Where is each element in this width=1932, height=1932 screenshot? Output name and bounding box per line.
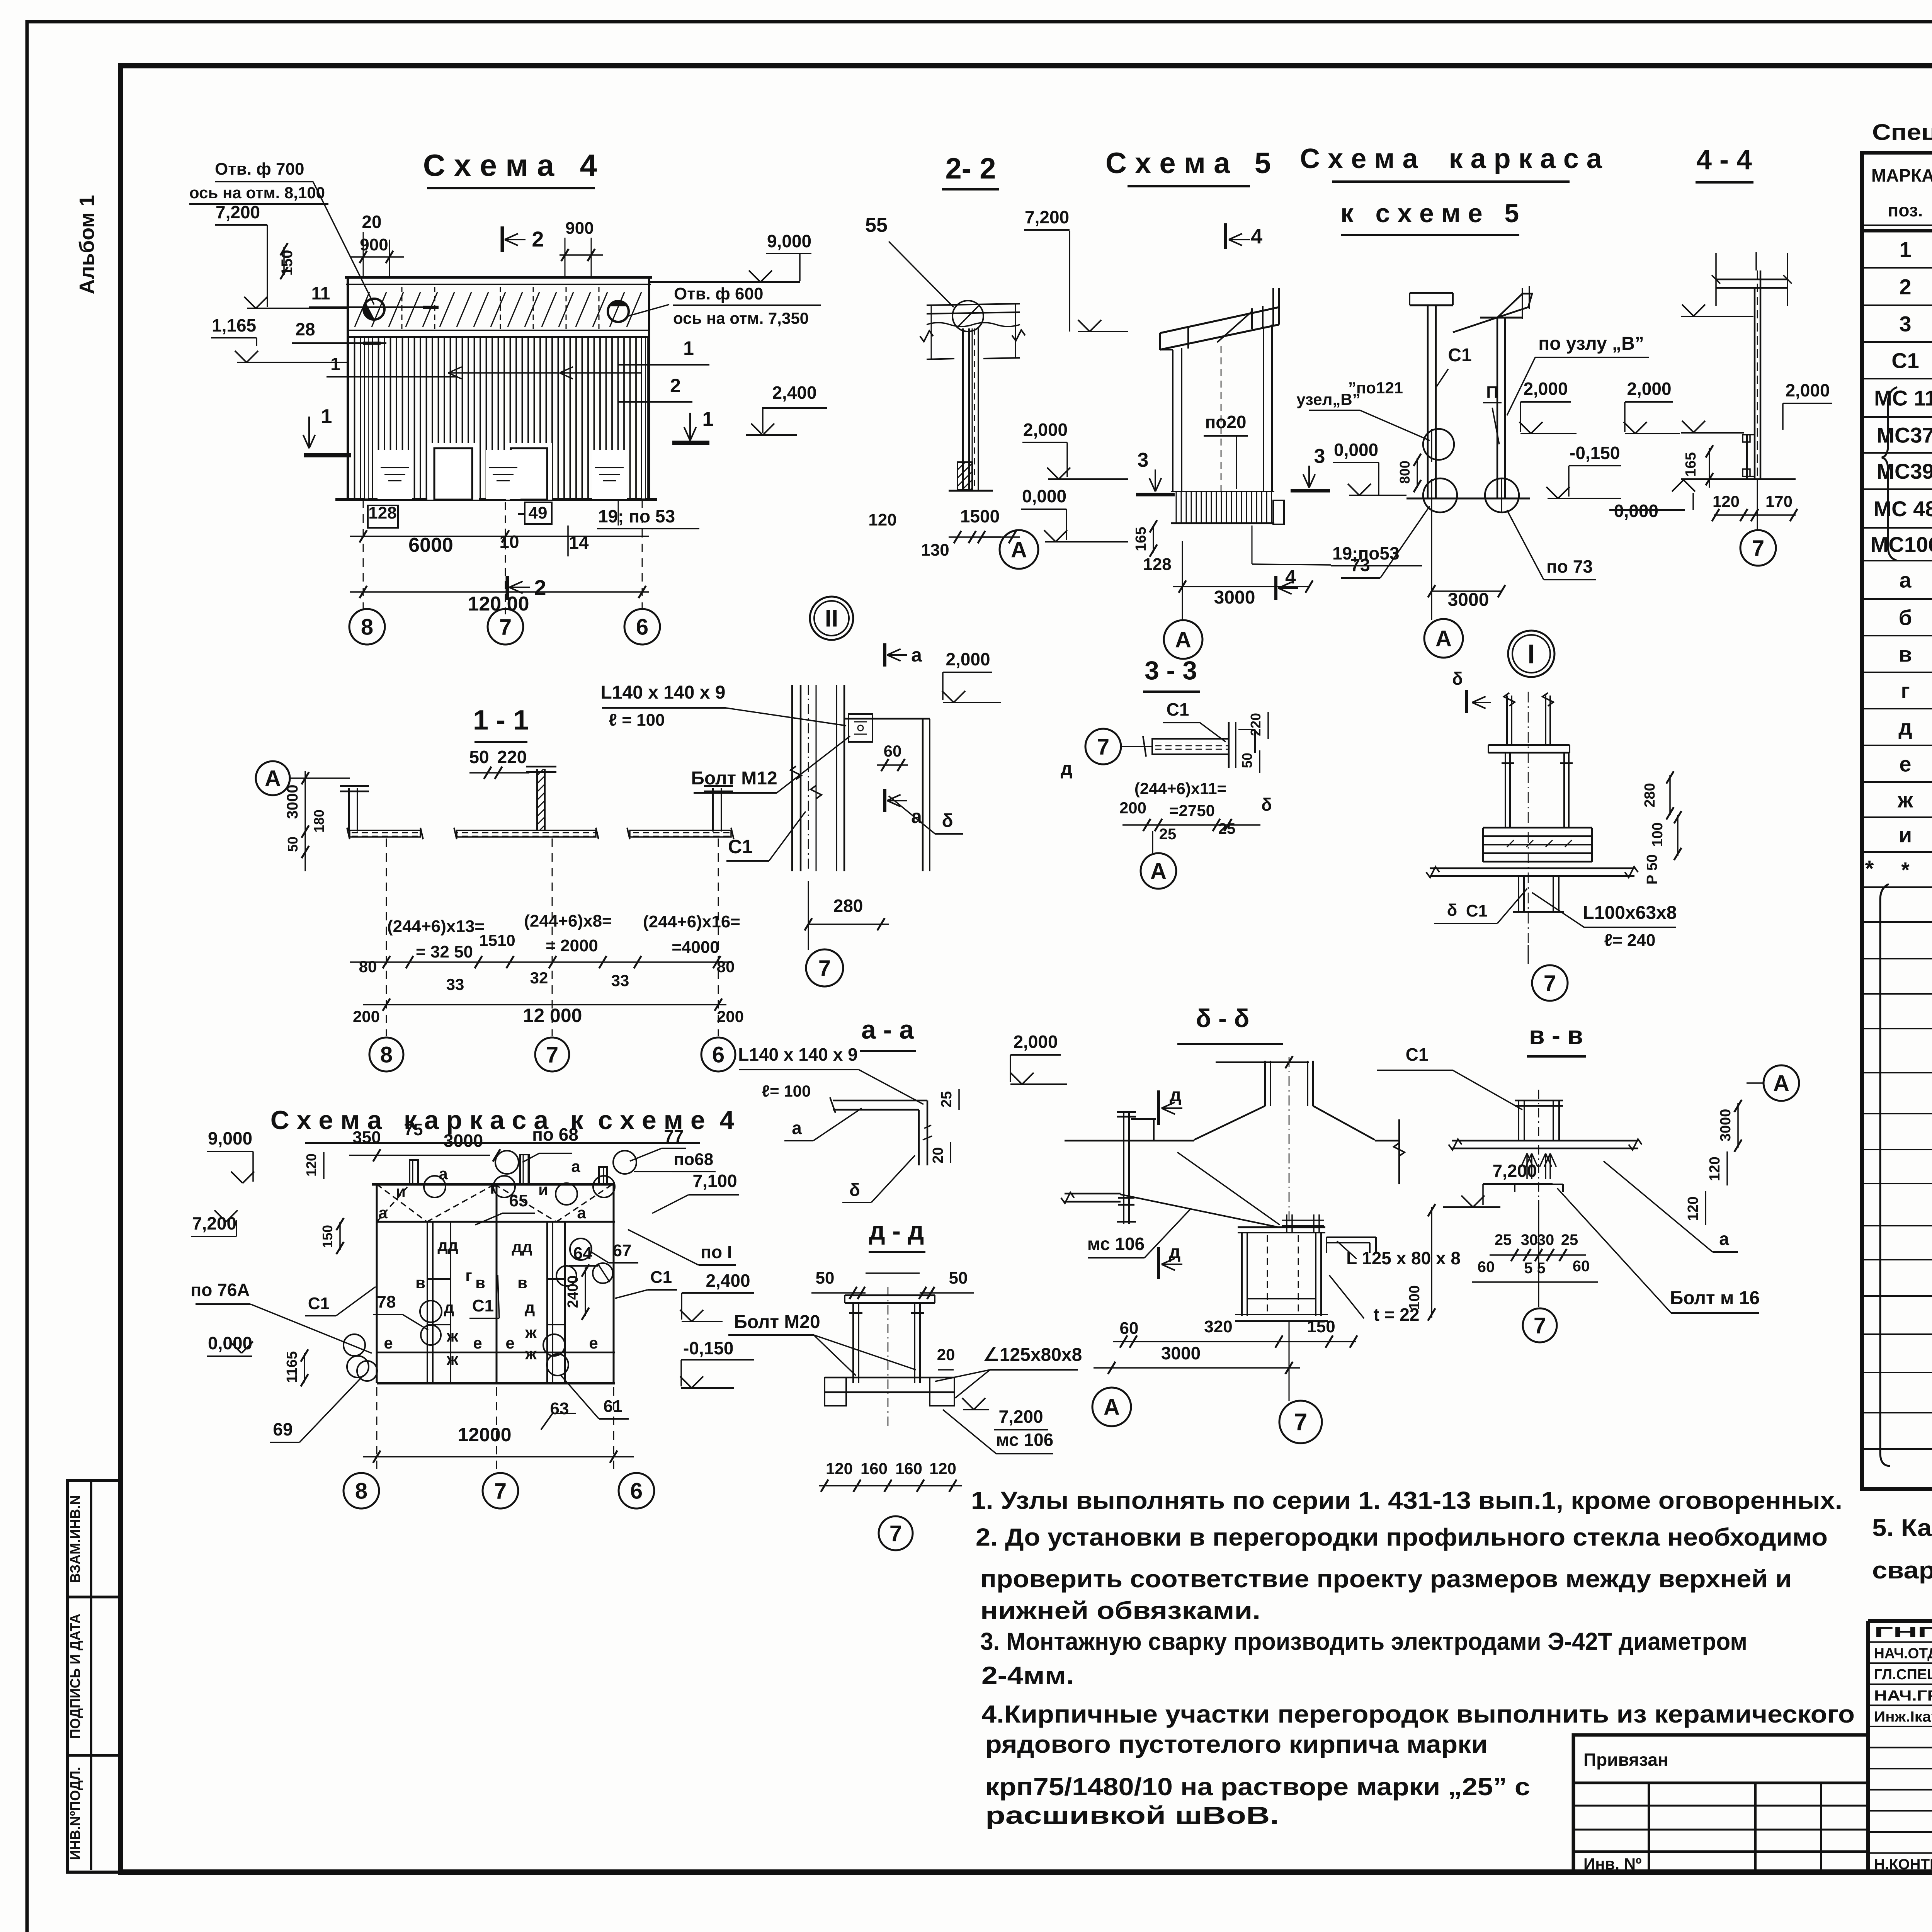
svg-text:МС37: МС37 bbox=[1876, 423, 1932, 447]
schema 5 bubble A bbox=[1164, 576, 1202, 659]
svg-text:200: 200 bbox=[717, 1007, 744, 1026]
svg-text:рядового пустотелого кирпича: рядового пустотелого кирпича марки bbox=[985, 1730, 1488, 1758]
svg-text:3000: 3000 bbox=[444, 1131, 483, 1151]
svg-text:в: в bbox=[1899, 642, 1912, 667]
portal frame 5 label uzel V po121 bbox=[1296, 379, 1430, 440]
svg-text:к с х е м е 5: к с х е м е 5 bbox=[1340, 199, 1519, 228]
left margin stamp boxes bbox=[68, 1481, 121, 1872]
svg-text:ℓ = 100: ℓ = 100 bbox=[609, 711, 665, 730]
detail b-b anchor bolt left bbox=[1117, 1112, 1156, 1224]
svg-text:2. До установки в перегородк: 2. До установки в перегородки профильног… bbox=[976, 1523, 1828, 1551]
schema 5 section mark 3 right bbox=[1291, 445, 1330, 491]
svg-text:а: а bbox=[439, 1165, 448, 1183]
svg-text:II: II bbox=[825, 605, 838, 632]
portal frame 4 dim 12000 bbox=[363, 1424, 634, 1463]
portal frame 4 label 67 bbox=[591, 1241, 638, 1283]
svg-text:1: 1 bbox=[683, 337, 694, 359]
svg-text:150: 150 bbox=[1307, 1317, 1335, 1336]
svg-text:280: 280 bbox=[1642, 783, 1658, 807]
svg-text:(244+6)x8=: (244+6)x8= bbox=[524, 912, 612, 930]
section 1-1 bubble 6 bbox=[701, 838, 735, 1071]
c1 detail label bolt M12 bbox=[691, 736, 850, 793]
svg-text:е: е bbox=[505, 1334, 514, 1352]
v-v label C1 lower bbox=[1377, 1044, 1522, 1110]
svg-text:нижней обвязками.: нижней обвязками. bbox=[980, 1597, 1260, 1624]
svg-text:7: 7 bbox=[1544, 971, 1556, 996]
portal frame 4 label po 76A bbox=[190, 1280, 372, 1353]
section 2-2 label 55 bbox=[865, 214, 954, 307]
svg-text:г: г bbox=[490, 1179, 497, 1197]
svg-text:3000: 3000 bbox=[284, 785, 301, 819]
schema 5 elevation 0000 bbox=[1021, 486, 1128, 542]
section 4-4 level 7200 line bbox=[1681, 304, 1753, 316]
svg-text:3: 3 bbox=[1899, 312, 1911, 336]
v-v upper bubble 7 bbox=[1528, 945, 1568, 1001]
svg-text:д: д bbox=[1170, 1085, 1181, 1105]
portal frame 5 elevation 0000 bbox=[1333, 440, 1406, 495]
svg-text:∠125х80х8: ∠125х80х8 bbox=[983, 1345, 1082, 1365]
svg-text:-0,150: -0,150 bbox=[683, 1338, 733, 1358]
svg-text:С1: С1 bbox=[308, 1294, 330, 1313]
svg-text:50: 50 bbox=[285, 837, 301, 852]
svg-text:1: 1 bbox=[1899, 237, 1911, 262]
portal frame 5 label po 73 bbox=[1507, 510, 1596, 580]
svg-text:расшивкой шВоВ.: расшивкой шВоВ. bbox=[985, 1801, 1279, 1829]
svg-text:7: 7 bbox=[1294, 1409, 1307, 1436]
portal frame 5 elevation -0150 bbox=[1546, 443, 1621, 498]
svg-text:165: 165 bbox=[1683, 452, 1699, 476]
svg-text:С1: С1 bbox=[650, 1268, 672, 1287]
portal frame 5 bubble A bbox=[1424, 506, 1463, 658]
svg-text:25: 25 bbox=[1218, 820, 1236, 837]
schema 4 elevation 7200 left bbox=[215, 202, 348, 308]
schema 4 label 10 bbox=[499, 502, 519, 614]
section 1-1 bubble 8 bbox=[369, 838, 403, 1071]
schema 5 section mark 4 top bbox=[1226, 223, 1262, 249]
svg-text:д: д bbox=[1898, 715, 1912, 740]
portal frame 4 dim 2400 vertical bbox=[565, 1264, 589, 1320]
svg-text:1500: 1500 bbox=[960, 506, 1000, 526]
portal frame 4 label C1 left bbox=[305, 1287, 376, 1316]
svg-text:(244+6)x11=: (244+6)x11= bbox=[1134, 779, 1226, 798]
c1 detail labels L140 bbox=[601, 682, 846, 730]
detail d-d bottom channel bbox=[825, 1378, 954, 1406]
portal frame 4 elevation 9000 bbox=[207, 1128, 372, 1183]
svg-text:МС106: МС106 bbox=[1871, 532, 1932, 557]
c1 detail elevation 2000 bbox=[942, 649, 1001, 702]
svg-text:д: д bbox=[525, 1298, 535, 1316]
svg-text:ℓ= 240: ℓ= 240 bbox=[1604, 931, 1656, 950]
svg-text:220: 220 bbox=[1248, 713, 1264, 736]
detail b-b bubble A bbox=[1092, 1388, 1131, 1426]
svg-text:2,000: 2,000 bbox=[1627, 379, 1671, 399]
svg-text:2,000: 2,000 bbox=[946, 649, 990, 669]
detail b-b title bbox=[1177, 1004, 1283, 1044]
detail b-b label L125 bbox=[1337, 1241, 1461, 1272]
svg-text:по 73: по 73 bbox=[1546, 556, 1593, 577]
svg-text:0,000: 0,000 bbox=[1334, 440, 1378, 460]
detail b-b level line 7200 bbox=[1065, 1119, 1405, 1184]
svg-text:L100х63х8: L100х63х8 bbox=[1583, 903, 1677, 923]
svg-text:1: 1 bbox=[321, 405, 332, 428]
svg-text:мс 106: мс 106 bbox=[1087, 1234, 1145, 1254]
svg-text:20: 20 bbox=[930, 1147, 946, 1163]
svg-text:δ: δ bbox=[1261, 794, 1272, 815]
schema 4 grid bubble 8 bbox=[349, 500, 385, 645]
svg-text:I: I bbox=[1527, 639, 1535, 669]
svg-text:в - в: в - в bbox=[1529, 1021, 1583, 1049]
node I circle bbox=[1508, 631, 1554, 677]
v-v lower label bolt m16 bbox=[1557, 1188, 1760, 1313]
svg-text:60: 60 bbox=[1120, 1319, 1139, 1338]
svg-text:д: д bbox=[1169, 1242, 1180, 1262]
svg-text:по68: по68 bbox=[674, 1150, 713, 1169]
detail a-a label a bbox=[784, 1108, 862, 1141]
svg-text:150: 150 bbox=[320, 1225, 335, 1248]
svg-text:7,200: 7,200 bbox=[998, 1406, 1043, 1427]
svg-text:120: 120 bbox=[826, 1459, 853, 1478]
svg-text:С х е м а 5: С х е м а 5 bbox=[1105, 147, 1271, 180]
svg-text:по20: по20 bbox=[1205, 412, 1246, 432]
svg-text:33: 33 bbox=[446, 975, 464, 993]
svg-text:д - д: д - д bbox=[869, 1216, 924, 1245]
svg-text:а: а bbox=[378, 1204, 388, 1222]
svg-text:170: 170 bbox=[1765, 492, 1793, 510]
svg-text:=2750: =2750 bbox=[1169, 801, 1215, 820]
schema 5 elevation 7200 bbox=[1023, 207, 1128, 332]
svg-text:2: 2 bbox=[1899, 275, 1911, 299]
svg-text:7,200: 7,200 bbox=[216, 202, 260, 222]
specification table title bbox=[1872, 120, 1932, 145]
portal frame 4 top chord bbox=[372, 1183, 615, 1186]
svg-text:П: П bbox=[1486, 383, 1498, 402]
svg-text:ж: ж bbox=[525, 1323, 537, 1342]
portal frame 4 columns bbox=[377, 1184, 614, 1383]
section 1-1 dim line 12000 bbox=[353, 998, 744, 1026]
svg-text:69: 69 bbox=[273, 1419, 293, 1439]
svg-text:60: 60 bbox=[884, 742, 902, 760]
schema 4 section mark 2 bottom bbox=[507, 575, 546, 600]
svg-text:3. Монтажную сварку производ: 3. Монтажную сварку производить электрод… bbox=[980, 1628, 1747, 1655]
svg-text:1165: 1165 bbox=[284, 1351, 300, 1383]
schema 4 dim line 12000 bbox=[350, 586, 649, 615]
schema 5 bottom labels bbox=[1143, 526, 1422, 608]
svg-text:3 - 3: 3 - 3 bbox=[1145, 656, 1197, 685]
svg-text:ж: ж bbox=[446, 1327, 459, 1345]
svg-text:32: 32 bbox=[530, 969, 548, 987]
portal frame 4 member letters bbox=[378, 1157, 598, 1368]
schema 4 elevation 2400 right bbox=[746, 383, 827, 435]
svg-text:1: 1 bbox=[330, 354, 340, 374]
section 4-4 elevation 0000 bbox=[1609, 480, 1695, 521]
svg-text:Привязан: Привязан bbox=[1583, 1750, 1668, 1770]
svg-text:280: 280 bbox=[833, 896, 863, 916]
section 4-4 bracket bbox=[1743, 434, 1755, 479]
svg-text:350: 350 bbox=[352, 1128, 381, 1147]
svg-text:120 00: 120 00 bbox=[468, 593, 529, 615]
detail b-b dims bottom bbox=[1094, 1317, 1357, 1374]
svg-text:2,000: 2,000 bbox=[1785, 380, 1830, 400]
section 1-1 rail segment 2 bbox=[454, 828, 599, 839]
c1 detail label b bbox=[889, 796, 963, 834]
svg-text:75: 75 bbox=[404, 1120, 423, 1139]
svg-text:Р 50: Р 50 bbox=[1644, 854, 1660, 884]
svg-text:6: 6 bbox=[712, 1042, 724, 1067]
section 1-1 rail segment 1 bbox=[347, 828, 423, 839]
svg-text:2: 2 bbox=[532, 227, 544, 251]
svg-text:11: 11 bbox=[311, 283, 330, 303]
schema 4 opening d600 bbox=[608, 301, 629, 322]
svg-text:160: 160 bbox=[861, 1459, 888, 1478]
detail d-d label bolt M20 bbox=[728, 1312, 916, 1376]
svg-text:80: 80 bbox=[717, 957, 735, 976]
detail d-d bubble 7 bbox=[879, 1516, 913, 1550]
svg-text:7,200: 7,200 bbox=[192, 1213, 236, 1233]
svg-text:7,100: 7,100 bbox=[692, 1171, 737, 1191]
svg-text:С1: С1 bbox=[1406, 1044, 1429, 1065]
c1 detail dim 280 bbox=[804, 896, 889, 930]
v-v upper label L100x63x8 bbox=[1532, 893, 1677, 950]
detail a-a title bbox=[860, 1015, 916, 1051]
svg-text:ж: ж bbox=[446, 1350, 459, 1368]
svg-text:28: 28 bbox=[295, 319, 315, 339]
schema 4 base water marks bbox=[378, 450, 627, 499]
svg-text:128: 128 bbox=[1143, 555, 1171, 574]
section 4-4 dim 165 bbox=[1683, 445, 1713, 488]
section 1-1 middle stud bbox=[526, 767, 556, 830]
svg-text:7: 7 bbox=[1534, 1313, 1546, 1338]
portal frame 4 stub posts bbox=[410, 1155, 607, 1184]
svg-text:49: 49 bbox=[529, 503, 548, 522]
svg-text:δ: δ bbox=[849, 1180, 860, 1200]
portal frame 4 elevation 2400 bbox=[680, 1270, 754, 1321]
schema 4 top band diagonals bbox=[355, 287, 641, 329]
svg-text:120: 120 bbox=[1707, 1156, 1723, 1181]
svg-text:1. Узлы выполнять по серии: 1. Узлы выполнять по серии 1. 431-13 вып… bbox=[971, 1486, 1842, 1514]
svg-text:2,000: 2,000 bbox=[1023, 420, 1068, 440]
svg-text:ось на отм. 7,350: ось на отм. 7,350 bbox=[673, 309, 809, 327]
svg-text:а: а bbox=[1899, 568, 1912, 592]
svg-text:7: 7 bbox=[1752, 536, 1764, 561]
svg-text:7: 7 bbox=[818, 956, 831, 981]
portal frame 5 label C1 bbox=[1437, 345, 1472, 386]
svg-text:МС 11: МС 11 bbox=[1874, 386, 1932, 410]
svg-text:по I: по I bbox=[701, 1242, 732, 1262]
schema 4 bottom dim 128 bbox=[368, 503, 398, 528]
detail b-b column bbox=[1194, 1056, 1375, 1229]
detail d-d title bbox=[869, 1216, 925, 1252]
svg-text:200: 200 bbox=[1119, 799, 1146, 817]
section 2-2 bubble A bbox=[981, 530, 1038, 569]
svg-text:9,000: 9,000 bbox=[767, 231, 811, 251]
detail b-b rail left bbox=[1061, 1192, 1121, 1203]
svg-text:2,400: 2,400 bbox=[772, 383, 816, 403]
svg-text:мс 106: мс 106 bbox=[996, 1430, 1054, 1450]
portal frame 5 label po uzlu V bbox=[1507, 333, 1649, 415]
svg-text:73: 73 bbox=[1350, 555, 1370, 575]
c1 detail channel bbox=[837, 685, 930, 871]
portal frame 4 studs bbox=[427, 1222, 565, 1383]
svg-text:5. Катет шва сварных соедин: 5. Катет шва сварных соединений равен на… bbox=[1872, 1515, 1932, 1541]
svg-text:МС39: МС39 bbox=[1876, 459, 1932, 483]
svg-text:(244+6)x16=: (244+6)x16= bbox=[643, 912, 740, 931]
svg-text:С1: С1 bbox=[1448, 345, 1471, 366]
svg-text:дд: дд bbox=[437, 1236, 458, 1254]
svg-text:2-4мм.: 2-4мм. bbox=[981, 1662, 1074, 1689]
svg-text:20: 20 bbox=[937, 1345, 955, 1364]
detail b-b bubble 7 bbox=[1279, 1401, 1322, 1443]
schema 4 opening d600 label bbox=[628, 284, 821, 327]
svg-text:г: г bbox=[465, 1266, 472, 1284]
svg-text:Н.КОНТР.: Н.КОНТР. bbox=[1874, 1857, 1932, 1873]
svg-text:25: 25 bbox=[1495, 1231, 1512, 1248]
c1 detail bubble 7 bbox=[806, 881, 843, 986]
detail b-b elevation 7200 bbox=[1443, 1161, 1553, 1207]
v-v upper plates bbox=[1488, 745, 1570, 753]
svg-text:4.Кирпичные участки перегоро: 4.Кирпичные участки перегородок выполнит… bbox=[981, 1700, 1855, 1728]
svg-text:8: 8 bbox=[355, 1478, 367, 1503]
svg-text:Болт М12: Болт М12 bbox=[691, 768, 777, 789]
general notes text block bbox=[971, 1486, 1855, 1829]
svg-text:ℓ= 100: ℓ= 100 bbox=[762, 1082, 811, 1100]
svg-text:64: 64 bbox=[573, 1244, 592, 1263]
portal frame 4 label 63 bbox=[541, 1399, 576, 1430]
svg-text:г: г bbox=[1901, 679, 1910, 703]
svg-text:е: е bbox=[384, 1334, 393, 1352]
detail b-b grid line bbox=[1289, 1321, 1290, 1401]
schema 4 pos label 11 bbox=[309, 283, 439, 307]
section 1-1 bubble 7 bbox=[535, 838, 569, 1071]
section 3-3 channel bbox=[1143, 722, 1255, 768]
detail d-d top plate bbox=[845, 1295, 935, 1303]
section 4-4 dims 120 170 bbox=[1712, 492, 1797, 521]
schema 4 dim 150 left bbox=[279, 243, 296, 279]
svg-text:= 2000: = 2000 bbox=[546, 936, 598, 955]
schema 4 door opening 2 bbox=[506, 443, 552, 500]
svg-text:3000: 3000 bbox=[1718, 1109, 1734, 1142]
svg-text:8: 8 bbox=[361, 614, 373, 639]
signature table texts bbox=[1874, 1622, 1932, 1873]
svg-text:-0,150: -0,150 bbox=[1570, 443, 1620, 463]
rotated label Альбом 1 bbox=[75, 195, 99, 294]
schema 4 dim 20 900 top bbox=[350, 212, 404, 277]
svg-text:Инв. Nº: Инв. Nº bbox=[1583, 1855, 1641, 1873]
svg-text:3000: 3000 bbox=[1161, 1343, 1201, 1363]
svg-text:С х е м а к а р к а с а: С х е м а к а р к а с а bbox=[1300, 143, 1602, 174]
v-v lower bubble A bbox=[1747, 1065, 1799, 1101]
svg-text:67: 67 bbox=[613, 1241, 632, 1260]
table rows text bbox=[1871, 237, 1932, 1483]
svg-text:L 125 х 80 х 8: L 125 х 80 х 8 bbox=[1346, 1248, 1461, 1268]
svg-text:120: 120 bbox=[1713, 492, 1740, 510]
svg-text:Спецификация элементов перег: Спецификация элементов перегородок из пр… bbox=[1872, 120, 1932, 145]
portal frame 4 level 7200 line bbox=[377, 1221, 615, 1223]
section 1-1 dims 50 220 bbox=[469, 747, 529, 779]
svg-text:33: 33 bbox=[611, 971, 629, 990]
svg-text:30: 30 bbox=[1521, 1231, 1538, 1248]
v-v upper label C1 bbox=[1434, 889, 1527, 923]
svg-text:6: 6 bbox=[630, 1478, 643, 1503]
privyazan box bbox=[1573, 1735, 1868, 1873]
portal frame 4 rails bbox=[377, 1279, 615, 1383]
detail b-b section d mark bottom bbox=[1158, 1242, 1182, 1279]
portal frame 4 label 69 bbox=[270, 1361, 377, 1442]
svg-text:ПОДПИСЬ И ДАТА: ПОДПИСЬ И ДАТА bbox=[67, 1614, 83, 1739]
svg-text:а: а bbox=[571, 1157, 580, 1175]
svg-text:крп75/1480/10 на растворе ма: крп75/1480/10 на растворе марки „25” с bbox=[985, 1773, 1530, 1801]
schema 4 section mark 2 top bbox=[502, 226, 544, 252]
v-v lower label a bbox=[1604, 1161, 1738, 1252]
detail d-d dims 50 50 bbox=[811, 1269, 974, 1299]
c1 detail dim 60 bbox=[877, 742, 908, 771]
note 5 text bbox=[1872, 1515, 1932, 1584]
svg-text:ГНП: ГНП bbox=[1874, 1624, 1932, 1641]
svg-text:7: 7 bbox=[499, 614, 512, 639]
schema 5 elevation 2000 bbox=[1022, 420, 1128, 479]
svg-text:50: 50 bbox=[949, 1269, 968, 1287]
v-v lower dims bbox=[1472, 1100, 1742, 1282]
svg-text:ГЛ.СПЕЦ.: ГЛ.СПЕЦ. bbox=[1874, 1667, 1932, 1683]
svg-text:9,000: 9,000 bbox=[208, 1128, 252, 1148]
schema 4 title bbox=[423, 148, 597, 188]
svg-text:б: б bbox=[1899, 605, 1912, 630]
c1 detail column bbox=[791, 685, 821, 871]
svg-text:в: в bbox=[517, 1274, 527, 1292]
svg-text:0,000: 0,000 bbox=[208, 1333, 252, 1353]
section 2-2 top beam bbox=[920, 301, 1025, 359]
svg-text:L140 x 140 x 9: L140 x 140 x 9 bbox=[738, 1044, 857, 1065]
svg-text:165: 165 bbox=[1133, 527, 1149, 551]
detail d-d bolts bbox=[849, 1287, 924, 1430]
svg-text:12000: 12000 bbox=[457, 1424, 511, 1446]
detail v-v title bbox=[1527, 1021, 1586, 1056]
portal frame 4 label 78 bbox=[373, 1293, 441, 1345]
rotated label Взам.инв.№ bbox=[67, 1495, 83, 1583]
detail b-b stool bolts bbox=[1282, 1214, 1324, 1233]
svg-text:ж: ж bbox=[525, 1345, 537, 1363]
detail b-b label t22 bbox=[1329, 1275, 1430, 1328]
schema 4 elevation 9000 right bbox=[649, 231, 811, 282]
schema 4 inner arrows line bbox=[448, 367, 641, 379]
v-v upper rail bbox=[1426, 867, 1638, 878]
portal frame 4 label C1 right bbox=[615, 1268, 677, 1298]
schema 4 pos label 28 bbox=[292, 319, 386, 343]
section 4-4 bubble 7 bbox=[1740, 479, 1776, 566]
section 3-3 title bbox=[1143, 656, 1200, 692]
svg-text:ось на отм. 8,100: ось на отм. 8,100 bbox=[189, 184, 325, 202]
section 4-4 title bbox=[1696, 145, 1753, 182]
portal frame 4 node circles bbox=[344, 1151, 636, 1378]
svg-text:Альбом 1: Альбом 1 bbox=[75, 195, 99, 294]
svg-text:80: 80 bbox=[359, 957, 377, 976]
title block outline bbox=[1868, 1621, 1932, 1872]
svg-text:а: а bbox=[792, 1118, 802, 1138]
portal frame 5 elevation 2000 b bbox=[1624, 379, 1680, 434]
detail a-a dims bbox=[930, 1089, 959, 1163]
rotated label Инв.№подл. bbox=[67, 1767, 83, 1860]
specification table grid bbox=[1862, 153, 1932, 1489]
svg-text:”по121: ”по121 bbox=[1348, 379, 1403, 397]
schema 4 label 14 bbox=[568, 526, 589, 556]
section 2-2 footing bbox=[943, 462, 998, 494]
detail d-d dim 20 bbox=[937, 1345, 955, 1370]
portal frame 4 elevation 7200 bbox=[191, 1210, 377, 1236]
svg-text:по узлу „В”: по узлу „В” bbox=[1538, 333, 1644, 354]
portal frame 4 elevation -0150 bbox=[680, 1338, 754, 1388]
portal frame 4 elevation 0000 bbox=[207, 1333, 377, 1356]
svg-text:200: 200 bbox=[353, 1007, 380, 1026]
svg-text:50: 50 bbox=[1239, 753, 1255, 768]
